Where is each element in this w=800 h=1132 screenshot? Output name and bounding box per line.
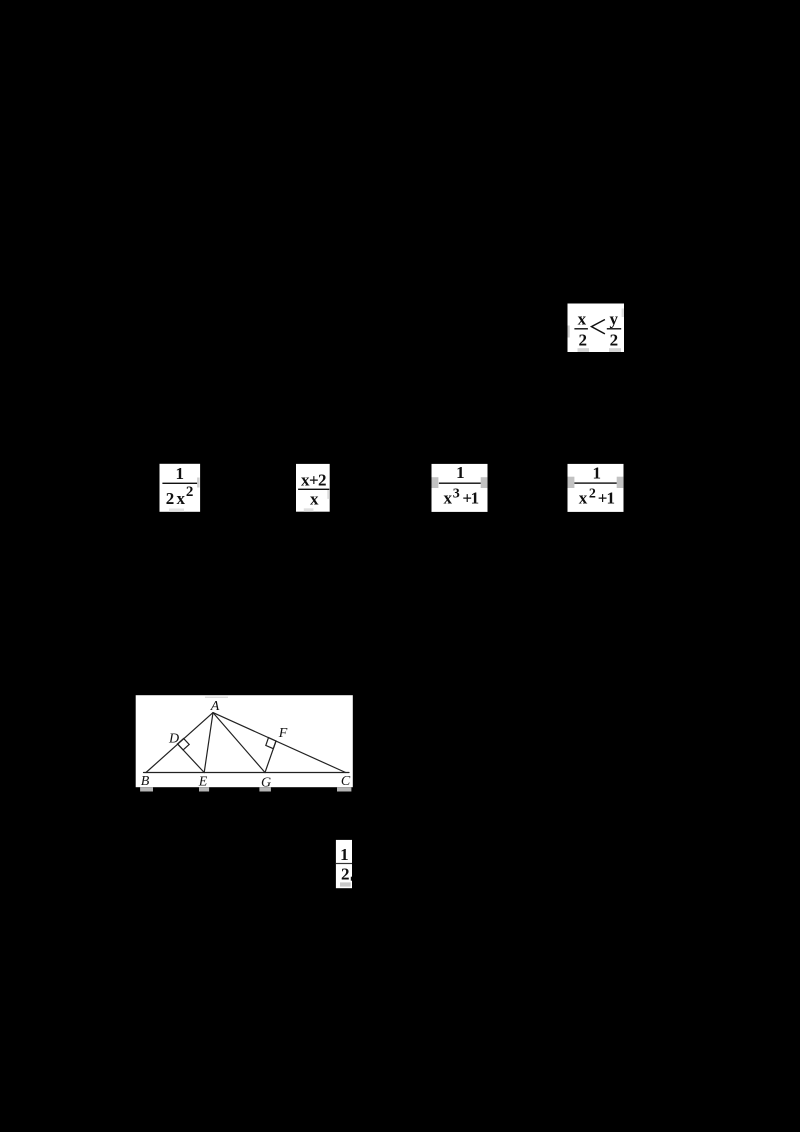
equation box EQ1: x/2 < y/2 bbox=[568, 304, 625, 353]
svg-text:x: x bbox=[177, 489, 186, 508]
svg-text:1: 1 bbox=[471, 489, 480, 508]
equation box EQ3: (x+2)/x bbox=[296, 464, 330, 512]
svg-text:x: x bbox=[310, 490, 319, 509]
equation box EQ4: 1/(x^3+1) bbox=[432, 463, 488, 512]
segment G to F (perpendicular to AC) bbox=[265, 741, 276, 773]
svg-text:2: 2 bbox=[186, 484, 194, 500]
svg-text:1: 1 bbox=[606, 489, 615, 508]
equation box EQ5: 1/(x^2+1) bbox=[568, 463, 624, 512]
svg-text:B: B bbox=[141, 774, 150, 789]
svg-text:1: 1 bbox=[592, 463, 601, 482]
cevian A to E bbox=[204, 713, 213, 773]
svg-text:2: 2 bbox=[318, 471, 327, 490]
svg-text:2: 2 bbox=[579, 330, 588, 349]
cevian A to G bbox=[213, 713, 265, 773]
equation box EQ6: 1/2 bbox=[336, 840, 352, 888]
svg-text:1: 1 bbox=[175, 464, 184, 483]
svg-text:x: x bbox=[578, 310, 587, 329]
grey tabs under figure bbox=[140, 787, 153, 791]
right angle mark at F bbox=[266, 738, 276, 749]
equation box EQ2: 1/(2x^2) bbox=[160, 464, 201, 512]
svg-text:A: A bbox=[210, 699, 220, 714]
right angle mark at D bbox=[178, 739, 190, 750]
svg-text:2: 2 bbox=[610, 330, 619, 349]
segment E to D (perpendicular to AB) bbox=[178, 744, 205, 773]
svg-text:1: 1 bbox=[456, 463, 465, 482]
svg-text:x: x bbox=[579, 489, 588, 508]
geometry figure: triangle ABC with feet D,E,F,G bbox=[136, 695, 353, 790]
svg-text:2: 2 bbox=[589, 486, 596, 501]
svg-text:x: x bbox=[443, 489, 452, 508]
side A to C bbox=[213, 713, 346, 773]
svg-text:C: C bbox=[341, 774, 351, 789]
svg-text:2: 2 bbox=[166, 489, 175, 508]
svg-text:y: y bbox=[610, 310, 619, 329]
svg-text:1: 1 bbox=[340, 845, 349, 864]
svg-text:F: F bbox=[278, 726, 288, 741]
svg-text:3: 3 bbox=[453, 486, 460, 501]
baseline through B E G C bbox=[144, 772, 350, 774]
side B to A bbox=[146, 713, 213, 773]
svg-text:2: 2 bbox=[341, 865, 350, 884]
svg-text:D: D bbox=[168, 731, 179, 746]
